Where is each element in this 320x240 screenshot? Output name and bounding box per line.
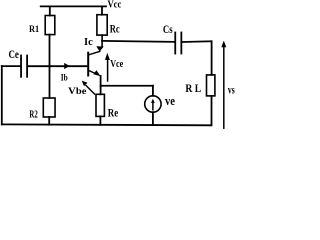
svg-text:R L: R L: [185, 83, 201, 95]
svg-text:Vbe: Vbe: [68, 87, 86, 97]
svg-text:R2: R2: [29, 110, 37, 121]
svg-text:Vcc: Vcc: [108, 0, 122, 11]
svg-text:R1: R1: [29, 25, 39, 35]
svg-text:Re: Re: [108, 106, 119, 120]
svg-text:vs: vs: [228, 85, 235, 97]
svg-text:Vce: Vce: [110, 59, 123, 70]
svg-text:Cs: Cs: [163, 24, 173, 36]
svg-text:ve: ve: [165, 93, 175, 108]
svg-text:Ic: Ic: [84, 37, 93, 48]
svg-text:Rc: Rc: [110, 21, 120, 35]
svg-text:Ib: Ib: [61, 73, 68, 83]
svg-text:Ce: Ce: [9, 49, 19, 61]
